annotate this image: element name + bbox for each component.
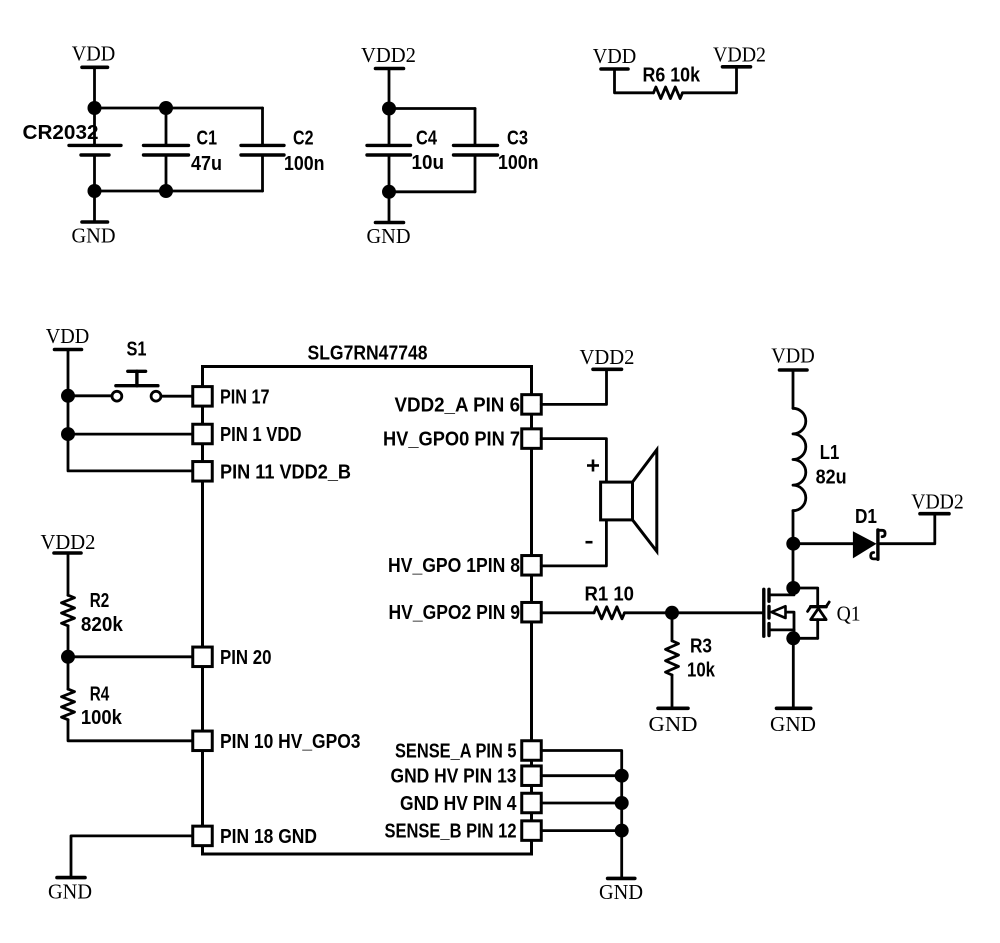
wire divider to PIN 20 — [68, 655, 193, 658]
label R1 10 — [585, 584, 635, 606]
power rail VDD bar (S1 group) — [55, 348, 82, 352]
label S1 — [127, 339, 147, 361]
pin square PIN 5 — [522, 741, 542, 761]
label C2 — [293, 128, 314, 150]
wire R1 to gate — [625, 611, 763, 614]
svg-text:82u: 82u — [816, 467, 847, 489]
power rail VDD2 bar (divider) — [54, 551, 81, 555]
svg-text:PIN 20: PIN 20 — [220, 647, 272, 669]
svg-text:C4: C4 — [416, 128, 438, 150]
node junction battery bottom — [88, 184, 102, 198]
svg-text:S1: S1 — [127, 339, 147, 361]
svg-text:VDD: VDD — [72, 42, 116, 66]
svg-text:Q1: Q1 — [837, 602, 861, 626]
net label GND (Q1) — [770, 712, 816, 736]
svg-text:GND HV PIN 4: GND HV PIN 4 — [400, 793, 517, 815]
wire PIN 6 to VDD2 — [541, 369, 606, 404]
node junction C4 bottom — [382, 185, 396, 199]
svg-text:PIN 10 HV_GPO3: PIN 10 HV_GPO3 — [220, 731, 361, 753]
svg-text:CR2032: CR2032 — [23, 122, 99, 144]
speaker LS1 — [601, 450, 657, 552]
svg-text:R2: R2 — [90, 590, 110, 612]
pin label PIN 17 — [220, 386, 270, 408]
svg-text:GND: GND — [770, 712, 816, 736]
node junction divider — [61, 650, 75, 664]
ground bar (battery group) — [82, 220, 108, 224]
power rail VDD bar (R6 group) — [601, 67, 628, 71]
net label VDD2 (divider group) — [41, 530, 96, 554]
pin label PIN 18 GND — [220, 826, 317, 848]
svg-text:PIN 18 GND: PIN 18 GND — [220, 826, 317, 848]
wire R2 to R4 — [67, 626, 70, 689]
wire PIN 12 to sense bus — [541, 829, 621, 832]
svg-text:VDD2: VDD2 — [911, 490, 964, 514]
ground bar (Q1) — [777, 706, 811, 710]
svg-text:C3: C3 — [507, 128, 528, 150]
svg-text:VDD: VDD — [771, 344, 815, 368]
svg-text:R6 10k: R6 10k — [643, 65, 701, 87]
wire source to ground — [792, 638, 795, 707]
pin square PIN 9 — [522, 602, 542, 622]
pin square PIN 13 — [522, 766, 542, 786]
pin square PIN 18 — [193, 826, 213, 846]
wire VDD2 to C4 — [388, 69, 391, 145]
wire node to D1 anode — [793, 542, 853, 545]
power rail VDD bar — [82, 66, 108, 70]
pin square PIN 6 — [522, 395, 542, 415]
svg-text:SLG7RN47748: SLG7RN47748 — [308, 343, 428, 365]
svg-text:VDD: VDD — [46, 324, 90, 348]
label L1 — [820, 442, 840, 464]
net label GND (sense bus) — [599, 880, 643, 904]
svg-text:47u: 47u — [191, 153, 222, 175]
wire PIN 18 to ground — [71, 836, 193, 877]
resistor R4 — [62, 689, 75, 720]
value 820k — [81, 614, 124, 636]
label CR2032 — [23, 122, 99, 144]
capacitor C4 — [367, 145, 411, 222]
wire VDD to battery — [93, 67, 96, 144]
label C3 — [507, 128, 528, 150]
node junction S1 — [61, 389, 75, 403]
pin label PIN 1 VDD — [220, 424, 302, 446]
ground bar (C4 group) — [376, 221, 404, 225]
pin label HV_GPO2 PIN 9 — [389, 602, 521, 624]
value 100k — [81, 707, 123, 729]
value 10k — [687, 660, 716, 682]
pin square PIN 17 — [193, 387, 213, 407]
power rail VDD bar (L1 group) — [780, 368, 808, 372]
svg-text:HV_GPO0 PIN 7: HV_GPO0 PIN 7 — [383, 429, 520, 451]
svg-text:100k: 100k — [81, 707, 123, 729]
net label VDD2 (R6 group) — [713, 43, 766, 67]
capacitor C2 — [241, 108, 284, 191]
svg-text:R4: R4 — [90, 684, 110, 706]
svg-text:PIN 11 VDD2_B: PIN 11 VDD2_B — [220, 461, 351, 483]
label minus — [586, 541, 593, 544]
wire top bus C4 group — [389, 107, 475, 110]
node junction C1 bottom — [159, 184, 173, 198]
svg-text:R1 10: R1 10 — [585, 584, 635, 606]
pin square PIN 12 — [522, 821, 542, 841]
wire bottom bus C4 group — [389, 190, 475, 193]
svg-text:HV_GPO2 PIN 9: HV_GPO2 PIN 9 — [389, 602, 521, 624]
svg-text:10k: 10k — [687, 660, 716, 682]
label R4 — [90, 684, 110, 706]
ground bar (PIN 18) — [57, 876, 85, 880]
net label GND (PIN 18) — [48, 880, 92, 904]
label plus — [587, 460, 599, 472]
wire top bus battery group — [95, 107, 263, 110]
net label VDD (L1 group) — [771, 344, 815, 368]
switch S1 — [112, 371, 161, 401]
svg-text:GND: GND — [48, 880, 92, 904]
node junction battery top — [88, 101, 102, 115]
wire to S1 left contact — [68, 394, 112, 397]
net label VDD2 (D1) — [911, 490, 964, 514]
wire junction to R3 — [671, 613, 674, 641]
label C1 — [197, 128, 218, 150]
pin square PIN 10 — [193, 731, 213, 751]
svg-text:GND: GND — [367, 224, 411, 248]
value 47u — [191, 153, 222, 175]
net label VDD (S1 group) — [46, 324, 90, 348]
pin label GND HV PIN 13 — [391, 766, 517, 788]
inductor L1 — [793, 408, 806, 510]
svg-text:L1: L1 — [820, 442, 840, 464]
value 82u — [816, 467, 847, 489]
pin square PIN 7 — [522, 429, 542, 449]
wire speaker minus to PIN 8 — [541, 520, 606, 566]
value 100n (C2) — [284, 153, 325, 175]
net label VDD2 (PIN 6) — [580, 345, 635, 369]
label R3 — [690, 636, 712, 658]
wire battery to ground — [93, 191, 96, 222]
pin square PIN 4 — [522, 793, 542, 813]
wire PIN 13 to sense bus — [541, 774, 621, 777]
svg-text:100n: 100n — [498, 152, 539, 174]
pin label HV_GPO 1PIN 8 — [388, 555, 520, 577]
IC U1 SLG7RN47748 body — [203, 367, 532, 855]
wire PIN 7 to speaker plus — [541, 439, 606, 481]
wire PIN 9 to R1 — [541, 611, 594, 614]
resistor R6 — [654, 87, 683, 99]
label SLG7RN47748 — [308, 343, 428, 365]
net label GND (battery group) — [72, 224, 116, 248]
wire D1 to VDD2 — [878, 514, 935, 544]
net label GND (R3) — [649, 712, 698, 736]
wire R6 to VDD2 — [683, 67, 737, 93]
wire bottom bus battery group — [95, 190, 263, 193]
pin square PIN 1 — [193, 424, 213, 444]
pin label PIN 10 HV_GPO3 — [220, 731, 361, 753]
pin label PIN 11 VDD2_B — [220, 461, 351, 483]
ground bar (sense bus) — [608, 877, 635, 881]
wire R3 to ground — [671, 675, 674, 707]
capacitor C1 — [144, 108, 189, 191]
node junction PIN1 — [61, 427, 75, 441]
power rail VDD2 bar (PIN 6) — [593, 367, 622, 371]
body diode (zener) of Q1 — [808, 602, 830, 638]
power rail VDD2 bar (D1) — [920, 512, 949, 516]
svg-text:VDD2_A PIN 6: VDD2_A PIN 6 — [395, 394, 521, 416]
net label VDD (R6 group) — [593, 44, 637, 68]
capacitor C3 — [454, 109, 498, 192]
svg-text:PIN 1 VDD: PIN 1 VDD — [220, 424, 302, 446]
node junction source — [786, 631, 800, 645]
battery CR2032 — [69, 145, 121, 191]
wire drain to diode branch — [793, 588, 817, 605]
node junction PIN 13 — [615, 769, 629, 783]
node junction PIN 12 — [615, 824, 629, 838]
wire VDD2 to R2 — [67, 553, 70, 595]
wire source to diode branch bottom — [793, 637, 817, 640]
node junction drain — [786, 581, 800, 595]
label R6 10k — [643, 65, 701, 87]
wire L1 to drain node — [792, 511, 795, 588]
svg-text:C1: C1 — [197, 128, 218, 150]
ground bar (R3) — [658, 706, 688, 710]
node junction C4 top — [382, 102, 396, 116]
resistor R3 — [666, 641, 679, 675]
svg-text:GND: GND — [649, 712, 698, 736]
pin label SENSE_A PIN 5 — [395, 741, 517, 763]
pin label VDD2_A PIN 6 — [395, 394, 521, 416]
svg-text:HV_GPO 1PIN 8: HV_GPO 1PIN 8 — [388, 555, 520, 577]
power rail VDD2 bar — [376, 67, 404, 71]
wire VDD down left rail — [68, 350, 193, 471]
wire VDD to L1 — [792, 370, 795, 408]
value 100n (C3) — [498, 152, 539, 174]
pin label PIN 20 — [220, 647, 272, 669]
svg-text:C2: C2 — [293, 128, 314, 150]
pin square PIN 8 — [522, 556, 542, 576]
node junction C1 top — [159, 101, 173, 115]
pin square PIN 11 — [193, 462, 213, 482]
svg-text:VDD: VDD — [593, 44, 637, 68]
svg-text:D1: D1 — [855, 506, 877, 528]
pin label HV_GPO0 PIN 7 — [383, 429, 520, 451]
node junction L1 diode — [786, 537, 800, 551]
wire R4 to PIN 10 — [68, 720, 193, 741]
svg-text:VDD2: VDD2 — [41, 530, 96, 554]
svg-text:GND: GND — [599, 880, 643, 904]
power rail VDD2 bar (R6 group) — [723, 65, 751, 69]
diode D1 (schottky) — [853, 530, 885, 559]
pin square PIN 20 — [193, 647, 213, 667]
svg-text:10u: 10u — [412, 152, 445, 174]
net label VDD2 (C4 group) — [361, 43, 416, 67]
net label GND (C4 group) — [367, 224, 411, 248]
svg-text:GND HV PIN 13: GND HV PIN 13 — [391, 766, 517, 788]
svg-text:PIN 17: PIN 17 — [220, 386, 270, 408]
node junction R3 — [665, 606, 679, 620]
label R2 — [90, 590, 110, 612]
net label VDD (battery group) — [72, 42, 116, 66]
resistor R2 — [62, 595, 75, 626]
svg-text:VDD2: VDD2 — [580, 345, 635, 369]
wire VDD to R6 — [615, 69, 654, 93]
svg-text:R3: R3 — [690, 636, 712, 658]
pin label SENSE_B PIN 12 — [385, 821, 517, 843]
svg-text:GND: GND — [72, 224, 116, 248]
label D1 — [855, 506, 877, 528]
pin label GND HV PIN 4 — [400, 793, 517, 815]
wire PIN 4 to sense bus — [541, 802, 621, 805]
label C4 — [416, 128, 438, 150]
node junction PIN 4 — [615, 796, 629, 810]
value 10u — [412, 152, 445, 174]
svg-text:100n: 100n — [284, 153, 325, 175]
svg-text:SENSE_B PIN 12: SENSE_B PIN 12 — [385, 821, 517, 843]
wire PIN 5 to sense bus — [541, 751, 621, 879]
transistor Q1 MOSFET — [764, 588, 794, 638]
wire to PIN 1 — [68, 433, 193, 436]
label Q1 — [837, 602, 861, 626]
resistor R1 — [594, 607, 624, 619]
svg-text:VDD2: VDD2 — [713, 43, 766, 67]
svg-text:VDD2: VDD2 — [361, 43, 416, 67]
svg-text:SENSE_A PIN 5: SENSE_A PIN 5 — [395, 741, 517, 763]
svg-text:820k: 820k — [81, 614, 124, 636]
wire S1 to PIN 17 — [161, 395, 193, 398]
